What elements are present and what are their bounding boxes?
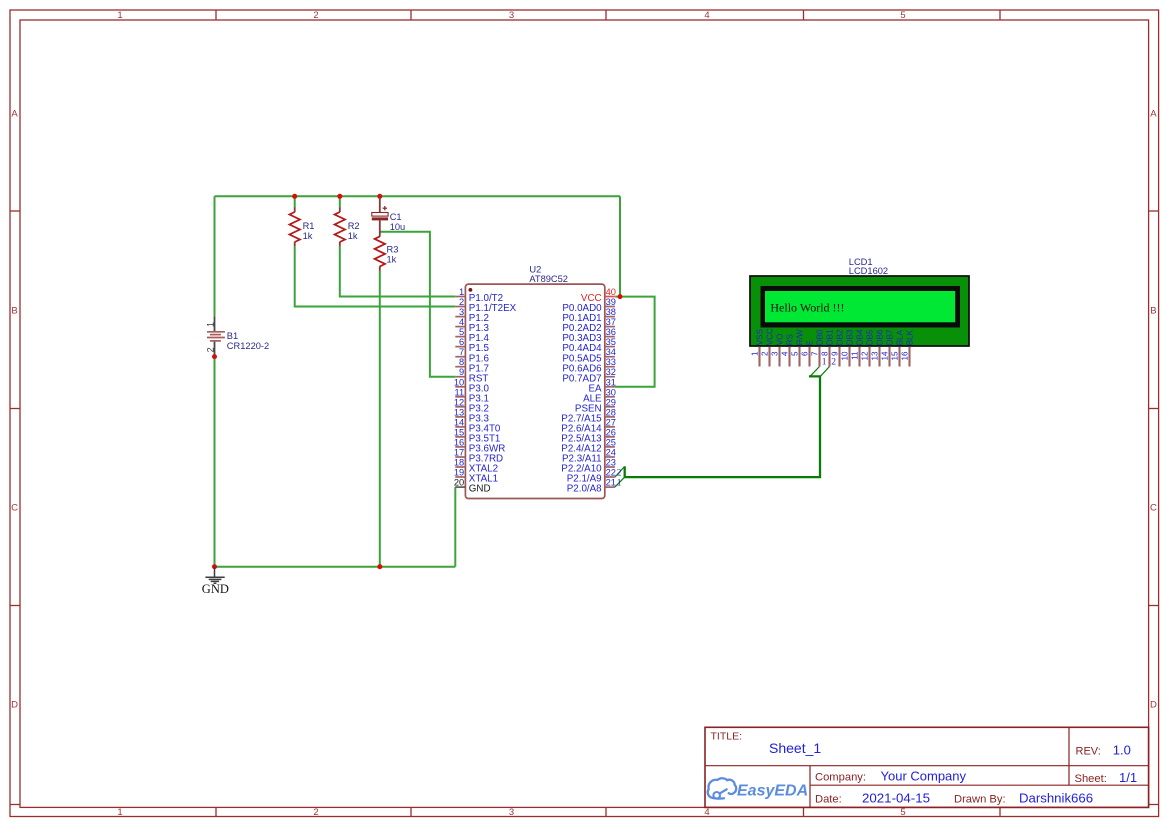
pin 33 P0.6AD6 <box>562 357 616 374</box>
wire ground rail <box>215 566 456 568</box>
pin 15 P3.5T1 <box>454 427 501 444</box>
svg-text:7: 7 <box>459 347 464 357</box>
svg-text:R/W: R/W <box>796 329 805 345</box>
pin 22 P2.1/A9 <box>567 468 616 485</box>
svg-text:19: 19 <box>454 468 464 478</box>
resistor R3 1k <box>379 232 381 237</box>
svg-text:GND: GND <box>469 484 491 495</box>
svg-text:RS: RS <box>786 333 795 345</box>
pin 7 P1.6 <box>455 347 489 364</box>
LCD1 pin 3 VO <box>771 333 785 366</box>
svg-text:2: 2 <box>206 347 216 352</box>
svg-text:10u: 10u <box>390 222 406 232</box>
wire R3 bottom to ground rail <box>379 271 381 567</box>
svg-text:10: 10 <box>841 351 850 361</box>
svg-text:Darshnik666: Darshnik666 <box>1019 790 1093 805</box>
LCD1 pin 7 DB0 <box>811 329 825 367</box>
svg-text:4: 4 <box>781 351 790 356</box>
svg-text:B: B <box>11 306 17 317</box>
svg-text:13: 13 <box>454 407 464 417</box>
bus entry LCD pin 8 <box>820 367 829 377</box>
battery B1 <box>206 317 225 355</box>
svg-text:17: 17 <box>454 448 464 458</box>
wire R2 top stub <box>339 196 341 207</box>
svg-text:Hello World !!!: Hello World !!! <box>770 301 844 315</box>
svg-text:33: 33 <box>606 357 616 367</box>
svg-text:REV:: REV: <box>1076 745 1101 757</box>
pin 2 P1.1/T2EX <box>455 297 516 314</box>
pin 32 P0.7AD7 <box>562 367 616 384</box>
svg-text:A: A <box>11 109 18 120</box>
svg-text:3: 3 <box>509 807 514 818</box>
svg-text:4: 4 <box>704 807 709 818</box>
svg-text:4: 4 <box>704 10 709 21</box>
svg-text:BLK: BLK <box>906 329 915 345</box>
pin 17 P3.7RD <box>454 448 503 465</box>
pin 29 PSEN <box>575 397 616 414</box>
bus entry IC pin 22 <box>615 466 625 477</box>
pin 16 P3.6WR <box>454 437 505 454</box>
svg-text:14: 14 <box>881 351 890 361</box>
svg-text:1/1: 1/1 <box>1119 770 1137 785</box>
svg-text:5: 5 <box>791 351 800 356</box>
wire VCC top rail <box>215 195 621 197</box>
svg-text:Sheet_1: Sheet_1 <box>769 740 821 756</box>
svg-text:1: 1 <box>206 322 216 327</box>
wire R1 to pin 2 <box>295 247 456 307</box>
svg-text:A: A <box>1150 109 1157 120</box>
svg-text:6: 6 <box>459 337 464 347</box>
svg-text:BLA: BLA <box>896 329 905 345</box>
svg-text:Company:: Company: <box>815 771 866 783</box>
svg-text:2: 2 <box>313 10 318 21</box>
pin 27 P2.6/A14 <box>561 417 616 434</box>
LCD1 pin 6 E <box>801 339 815 366</box>
svg-text:11: 11 <box>851 351 860 360</box>
pin 28 P2.7/A15 <box>561 407 616 424</box>
svg-text:R1: R1 <box>303 221 315 231</box>
svg-text:1: 1 <box>617 478 622 488</box>
svg-text:B1: B1 <box>227 331 238 341</box>
svg-text:37: 37 <box>606 317 616 327</box>
pin 39 P0.0AD0 <box>562 297 616 314</box>
svg-text:38: 38 <box>606 307 616 317</box>
svg-text:10: 10 <box>454 377 464 387</box>
svg-text:15: 15 <box>891 351 900 361</box>
svg-text:9: 9 <box>459 367 464 377</box>
svg-text:GND: GND <box>202 582 229 596</box>
svg-text:AT89C52: AT89C52 <box>529 274 568 284</box>
svg-text:39: 39 <box>606 297 616 307</box>
pin 19 XTAL1 <box>454 468 498 485</box>
pin 12 P3.2 <box>454 397 489 414</box>
pin 23 P2.2/A10 <box>561 458 616 475</box>
svg-text:26: 26 <box>606 427 616 437</box>
svg-text:28: 28 <box>606 407 616 417</box>
svg-text:11: 11 <box>455 387 465 397</box>
svg-text:3: 3 <box>771 351 780 356</box>
pin 18 XTAL2 <box>454 458 498 475</box>
svg-text:13: 13 <box>871 351 880 361</box>
svg-text:2: 2 <box>761 351 770 356</box>
svg-text:1k: 1k <box>303 231 313 241</box>
svg-text:R2: R2 <box>348 221 360 231</box>
svg-text:Date:: Date: <box>815 793 842 805</box>
pin 37 P0.2AD2 <box>562 317 616 334</box>
pin 21 P2.0/A8 <box>567 478 616 495</box>
LCD1 pin 12 DB5 <box>861 329 875 367</box>
svg-text:TITLE:: TITLE: <box>711 730 743 742</box>
title block <box>705 727 1149 807</box>
svg-text:16: 16 <box>454 437 464 447</box>
svg-text:R3: R3 <box>387 245 399 255</box>
svg-text:12: 12 <box>454 397 464 407</box>
svg-text:1k: 1k <box>348 231 358 241</box>
capacitor C1 10u polarized <box>372 196 388 232</box>
wire C1/R3 node to RST pin 9 <box>380 232 456 377</box>
ground symbol <box>205 567 224 584</box>
pin 31 EA <box>589 377 616 394</box>
svg-text:1: 1 <box>822 357 827 367</box>
svg-text:E: E <box>806 339 815 345</box>
bus entry IC pin 21 <box>615 477 625 487</box>
svg-text:5: 5 <box>900 10 905 21</box>
svg-text:14: 14 <box>454 417 464 427</box>
svg-text:C: C <box>11 503 18 514</box>
pin 13 P3.3 <box>454 407 490 424</box>
pin 8 P1.7 <box>455 357 489 374</box>
LCD1 pin 16 BLK <box>901 329 915 366</box>
svg-text:2: 2 <box>831 357 836 367</box>
pin 24 P2.3/A11 <box>562 448 616 465</box>
resistor R2 1k <box>339 208 341 213</box>
svg-text:2: 2 <box>617 468 622 478</box>
svg-text:B: B <box>1150 306 1156 317</box>
svg-text:30: 30 <box>606 387 616 397</box>
svg-text:EasyEDA: EasyEDA <box>737 783 808 800</box>
LCD1 pin 8 DB1 <box>821 329 835 367</box>
svg-text:6: 6 <box>801 351 810 356</box>
svg-text:1: 1 <box>117 10 122 21</box>
resistor R1 1k <box>294 208 296 213</box>
pin 40 VCC <box>581 287 616 304</box>
wire battery positive <box>214 196 216 316</box>
LCD1 pin 10 DB3 <box>841 329 855 367</box>
wire R2 to pin 1 <box>340 247 456 297</box>
svg-text:VO: VO <box>776 333 785 345</box>
LCD1 pin 15 BLA <box>891 329 905 366</box>
pin 9 RST <box>455 367 488 384</box>
pin 20 GND <box>454 478 491 495</box>
svg-text:LCD1602: LCD1602 <box>849 266 888 276</box>
svg-text:DB0: DB0 <box>816 329 825 345</box>
wire ground riser to pin 20 <box>454 487 456 567</box>
svg-text:1: 1 <box>459 287 464 297</box>
svg-text:DB2: DB2 <box>836 329 845 345</box>
LCD1 pin 13 DB6 <box>871 329 885 367</box>
svg-text:36: 36 <box>606 327 616 337</box>
svg-text:32: 32 <box>606 367 616 377</box>
svg-text:7: 7 <box>811 351 820 356</box>
IC U2 pin-1 marker <box>469 288 473 292</box>
pin 3 P1.2 <box>455 307 489 324</box>
junction R2/top rail <box>337 194 342 199</box>
svg-text:21: 21 <box>606 478 616 488</box>
junction C1/top rail <box>377 194 382 199</box>
pin 25 P2.4/A12 <box>561 437 616 454</box>
svg-text:8: 8 <box>459 357 464 367</box>
pin 6 P1.5 <box>455 337 489 354</box>
svg-text:1.0: 1.0 <box>1113 742 1131 757</box>
svg-text:4: 4 <box>459 317 464 327</box>
LCD1 pin 9 DB2 <box>831 329 845 367</box>
junction R3/ground rail <box>377 564 382 569</box>
wire R1 top stub <box>294 196 296 207</box>
svg-text:27: 27 <box>606 417 616 427</box>
svg-text:3: 3 <box>459 307 464 317</box>
svg-text:DB4: DB4 <box>856 329 865 345</box>
svg-text:2: 2 <box>459 297 464 307</box>
svg-text:DB6: DB6 <box>876 329 885 345</box>
LCD1 pin 4 RS <box>781 333 795 366</box>
svg-text:5: 5 <box>459 327 464 337</box>
svg-text:34: 34 <box>606 347 616 357</box>
LCD1 pin 5 R/W <box>791 329 805 366</box>
svg-text:25: 25 <box>606 437 616 447</box>
svg-text:2: 2 <box>313 807 318 818</box>
svg-text:Your Company: Your Company <box>881 768 967 783</box>
pin 30 ALE <box>583 387 616 404</box>
svg-text:Sheet:: Sheet: <box>1075 773 1107 785</box>
svg-text:DB5: DB5 <box>866 329 875 345</box>
svg-text:29: 29 <box>606 397 616 407</box>
pin 14 P3.4T0 <box>454 417 501 434</box>
LCD1 LCD1602 body <box>750 276 969 346</box>
pin 11 P3.1 <box>455 387 489 404</box>
LCD1 pin 14 DB7 <box>881 329 895 367</box>
svg-text:24: 24 <box>606 448 616 458</box>
svg-text:DB3: DB3 <box>846 329 855 345</box>
svg-text:8: 8 <box>821 351 830 356</box>
pin 38 P0.1AD1 <box>562 307 616 324</box>
junction battery pin 2 <box>212 354 217 359</box>
svg-text:35: 35 <box>606 337 616 347</box>
svg-text:D: D <box>11 700 18 711</box>
svg-text:20: 20 <box>454 478 464 488</box>
svg-text:P2.0/A8: P2.0/A8 <box>567 484 602 495</box>
IC U2 AT89C52 body <box>465 284 604 498</box>
svg-text:31: 31 <box>606 377 616 387</box>
LCD1 pin 2 VCC <box>761 328 775 367</box>
bus entry LCD pin 7 <box>810 367 819 377</box>
svg-text:12: 12 <box>861 351 870 361</box>
svg-text:1k: 1k <box>387 255 397 265</box>
bus data P2.0/P2.1 to LCD <box>625 376 820 477</box>
pin 36 P0.3AD3 <box>562 327 616 344</box>
pin 26 P2.5/A13 <box>561 427 616 444</box>
pin 34 P0.5AD5 <box>562 347 616 364</box>
svg-text:1: 1 <box>751 351 760 356</box>
wire battery negative down <box>214 357 216 567</box>
svg-text:5: 5 <box>900 807 905 818</box>
svg-text:2021-04-15: 2021-04-15 <box>862 790 930 805</box>
junction VCC pin 40 <box>618 294 623 299</box>
svg-text:23: 23 <box>606 458 616 468</box>
svg-text:3: 3 <box>509 10 514 21</box>
svg-text:18: 18 <box>454 458 464 468</box>
LCD1 pin 11 DB4 <box>851 329 865 367</box>
junction R1/top rail <box>292 194 297 199</box>
pin 1 P1.0/T2 <box>455 287 503 304</box>
svg-text:9: 9 <box>831 351 840 356</box>
pin 10 P3.0 <box>454 377 490 394</box>
pin 35 P0.4AD4 <box>562 337 616 354</box>
wire VCC drop to pin 40 <box>615 196 620 296</box>
svg-text:VSS: VSS <box>756 328 765 345</box>
svg-text:VCC: VCC <box>766 328 775 345</box>
svg-text:40: 40 <box>606 287 616 297</box>
svg-text:Drawn By:: Drawn By: <box>954 793 1006 805</box>
svg-text:C: C <box>1150 503 1157 514</box>
svg-text:C1: C1 <box>390 212 402 222</box>
svg-text:22: 22 <box>606 468 616 478</box>
pin 4 P1.3 <box>455 317 489 334</box>
wire VCC to EA pin 31 <box>615 297 655 387</box>
svg-text:CR1220-2: CR1220-2 <box>227 341 269 351</box>
LCD1 pin 1 VSS <box>751 328 765 366</box>
svg-text:16: 16 <box>901 351 910 361</box>
svg-text:1: 1 <box>117 807 122 818</box>
svg-text:D: D <box>1150 700 1157 711</box>
junction GND rail left <box>212 564 217 569</box>
pin 5 P1.4 <box>455 327 489 344</box>
svg-text:DB7: DB7 <box>886 329 895 345</box>
svg-text:15: 15 <box>454 427 464 437</box>
EasyEDA logo <box>708 778 808 799</box>
svg-text:DB1: DB1 <box>826 329 835 345</box>
